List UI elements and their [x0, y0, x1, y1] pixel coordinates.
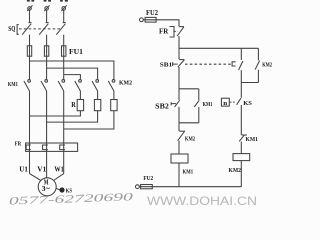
motor M — [38, 178, 56, 196]
wire coil KM1 to rail — [178, 163, 180, 187]
wire switch3 to fuse — [63, 35, 65, 80]
wire KS to KM1 NC — [240, 105, 242, 135]
contactor KM1 contact 2 — [41, 80, 48, 91]
wire KM1 contact 1 down — [29, 91, 31, 174]
wire KM1 aux down — [198, 107, 200, 123]
svg-text:KM1: KM1 — [8, 81, 18, 88]
wire KM2 contact 3 to resistor — [113, 91, 115, 100]
fuse FU1 pole 1 — [27, 46, 31, 56]
wire resistor R3 to line 3 — [64, 111, 114, 129]
svg-text:FU2: FU2 — [143, 175, 153, 182]
contactor KM2 contact 3 — [108, 80, 115, 91]
terminal L2 — [44, 5, 49, 11]
wire SB1 to node2 — [178, 67, 180, 89]
wire KM2 selfhold down — [257, 70, 259, 83]
switch SQ pole 3 — [56, 23, 65, 35]
wire KM2 contact 2 to resistor — [97, 91, 99, 100]
wire motor to speed sensor KS — [56, 188, 59, 189]
button SB1 NO plunger — [232, 62, 236, 66]
svg-text:KM2: KM2 — [262, 61, 272, 68]
resistor R3 — [111, 100, 117, 111]
wire rejoin SB2 KM1 — [179, 122, 199, 124]
terminal control bottom — [136, 185, 140, 189]
switch SQ pole 1 — [22, 23, 31, 35]
speed sensor KS dot — [59, 187, 64, 192]
wire FR to node — [178, 36, 180, 48]
thermal relay FR element 3 — [60, 145, 65, 150]
svg-text:KM1: KM1 — [203, 101, 213, 108]
thermal relay FR heater box — [26, 143, 78, 151]
contact KM1 aux NO — [194, 89, 199, 107]
contact SB2 NO — [175, 89, 180, 107]
wire L1 to switch — [29, 10, 31, 22]
contactor KM1 contact 1 — [24, 80, 31, 91]
node L2 cut label top — [44, 0, 51, 2]
fuse FU1 pole 3 — [62, 46, 66, 56]
svg-text:W1: W1 — [54, 165, 64, 174]
contactor KM1 contact 3 — [58, 80, 65, 91]
wire SB1 NO down — [240, 70, 242, 82]
svg-text:FR: FR — [159, 29, 168, 36]
node L1 cut label top — [27, 0, 34, 2]
button SB2 plunger — [171, 102, 176, 105]
wire rail bottom — [139, 186, 241, 188]
speed relay KS box — [221, 98, 229, 106]
wire KM1 contact 2 down — [46, 91, 48, 178]
wire L2 branch horizontal to KM2 column 2 — [47, 68, 98, 80]
contactor KM2 contact 2 — [92, 80, 99, 91]
wire switch1 to fuse — [29, 35, 31, 80]
wire KM1 NC to coil — [240, 142, 242, 154]
wire L2 to switch — [46, 10, 48, 22]
wire L3 to switch — [63, 10, 65, 22]
svg-text:V1: V1 — [37, 165, 46, 174]
wire node2 to KM1 branch — [179, 88, 199, 90]
wire L1 branch horizontal to KM2 column 3 — [30, 61, 114, 80]
terminal L3 — [61, 5, 66, 11]
wire switch2 to fuse — [46, 35, 48, 80]
fuse FU2 bottom — [141, 185, 153, 189]
svg-text:KM2: KM2 — [119, 79, 132, 86]
thermal relay FR element 1 — [26, 145, 31, 150]
wire SB2 down — [178, 107, 180, 123]
resistor R2 — [94, 100, 100, 111]
contact FR NC — [177, 27, 184, 36]
wire U1 to motor — [30, 174, 41, 181]
wire W1 to motor — [54, 174, 64, 181]
svg-text:SQ: SQ — [8, 25, 15, 33]
svg-text:SB1: SB1 — [160, 62, 172, 69]
fuse FU1 pole 2 — [44, 46, 48, 56]
svg-text:0577-62720690: 0577-62720690 — [9, 191, 134, 207]
terminal control top — [140, 18, 144, 22]
fuse FU2 top — [145, 17, 156, 22]
switch SQ linkage dashed — [19, 28, 62, 30]
svg-text:3~: 3~ — [42, 186, 51, 193]
switch SQ pole 2 — [39, 23, 48, 35]
wire KM2 contact 1 to resistor — [79, 91, 81, 100]
contactor KM2 contact 1 — [75, 80, 82, 91]
button SB1 plunger — [173, 62, 178, 66]
wire node to right column — [179, 47, 258, 49]
wire KM1 contact 3 down — [63, 91, 65, 174]
svg-text:WWW.DOHAI.CN: WWW.DOHAI.CN — [147, 194, 257, 208]
node L3 cut label top — [60, 0, 68, 2]
contact SB1 NO — [239, 48, 243, 70]
coil KM1 — [171, 154, 188, 163]
link FR dashed — [174, 30, 177, 32]
svg-text:SB2: SB2 — [155, 103, 169, 110]
thermal relay FR element 2 — [43, 145, 48, 150]
svg-text:U1: U1 — [19, 165, 28, 174]
wire L3 branch horizontal to KM2 column 1 — [64, 75, 81, 80]
svg-text:R: R — [71, 101, 76, 109]
contact KM2 NC interlock — [178, 123, 185, 141]
resistor R1 — [77, 100, 83, 111]
contact KS NO — [237, 98, 241, 105]
svg-text:KM2: KM2 — [185, 135, 195, 142]
svg-text:FU2: FU2 — [146, 10, 159, 17]
link SB1 dashed — [185, 63, 232, 65]
svg-text:FU1: FU1 — [69, 47, 83, 56]
wire KM2 NC to coil — [178, 141, 180, 154]
link KS dashed — [230, 101, 236, 103]
wire rejoin right — [241, 82, 258, 84]
wire control top — [143, 20, 179, 27]
svg-text:KS: KS — [243, 100, 252, 107]
thermal relay FR symbol — [170, 27, 175, 38]
svg-text:KM1: KM1 — [246, 136, 258, 143]
wire resistor R1 to line 1 — [30, 111, 81, 116]
svg-text:KM1: KM1 — [183, 169, 194, 176]
contact KM1 NC interlock — [239, 135, 247, 141]
contact KM2 selfhold NO — [255, 48, 260, 69]
coil KM2 — [233, 154, 250, 161]
terminal L1 — [27, 5, 32, 11]
wire coil KM2 to rail — [240, 161, 242, 187]
switch SQ bracket — [17, 25, 19, 35]
svg-text:FR: FR — [15, 141, 22, 148]
wire to KS — [240, 83, 242, 98]
svg-text:KM2: KM2 — [229, 167, 241, 174]
contact SB1 NC — [178, 48, 185, 67]
wire resistor R2 to line 2 — [47, 111, 98, 122]
